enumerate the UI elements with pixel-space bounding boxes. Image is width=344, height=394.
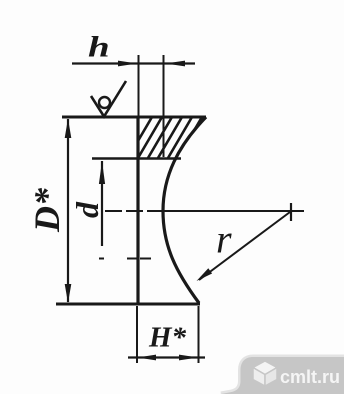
watermark cube icon — [253, 361, 277, 386]
H* dimension arrows — [138, 355, 157, 361]
hatching of cross-section — [128, 117, 222, 158]
svg-text:cmlt.ru: cmlt.ru — [280, 367, 340, 387]
D* dimension arrows — [65, 119, 72, 139]
d dimension arrow — [99, 161, 105, 184]
d extension line / hatch bottom boundary — [92, 157, 181, 160]
watermark panel cmlt.ru — [221, 357, 344, 394]
surface finish symbol (polished) — [91, 81, 126, 117]
svg-text:d: d — [69, 201, 105, 218]
lens flat left face — [136, 116, 139, 304]
h left extension line — [138, 55, 140, 116]
h right extension line (to concave vertex) — [163, 55, 165, 157]
svg-text:H*: H* — [148, 322, 187, 354]
H* right extension line — [198, 306, 200, 363]
h dimension line — [72, 62, 195, 64]
svg-text:D*: D* — [27, 187, 67, 233]
lens bottom edge with left extension line — [56, 302, 200, 305]
center of curvature cross — [290, 203, 292, 221]
H* dimension line — [128, 356, 205, 358]
lens concave surface (arc) — [163, 117, 206, 303]
r radius leader line — [199, 212, 290, 280]
dashed lower aperture line — [99, 258, 151, 260]
D* dimension line — [67, 119, 69, 302]
svg-text:r: r — [216, 217, 232, 262]
svg-text:h: h — [88, 30, 110, 64]
horizontal centerline — [105, 210, 304, 212]
r arrowhead — [197, 268, 213, 281]
h dimension arrows (outside) — [118, 61, 138, 67]
lens top edge with left extension line — [62, 116, 206, 119]
d dimension line — [101, 161, 103, 246]
H* left extension line — [136, 306, 138, 363]
